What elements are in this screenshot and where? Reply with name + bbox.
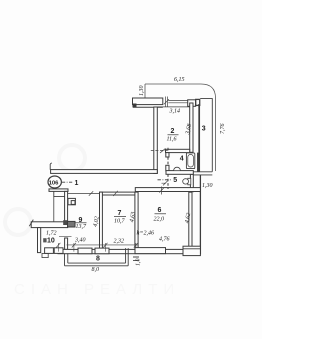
- svg-text:7,76: 7,76: [220, 124, 226, 135]
- bottom right corner block: [183, 246, 200, 255]
- room 10 label: [43, 238, 46, 242]
- svg-text:4,76: 4,76: [159, 235, 170, 242]
- bottom dim ticks: [56, 243, 138, 248]
- dim line 1.72: [59, 235, 72, 237]
- leader line to room 5 label: [158, 179, 172, 181]
- toilet room 5: [188, 178, 191, 185]
- svg-text:2: 2: [171, 128, 175, 135]
- svg-text:10,7: 10,7: [114, 219, 126, 225]
- hatched box near 13.7: [68, 221, 76, 227]
- svg-text:11,6: 11,6: [167, 136, 177, 142]
- svg-text:2,32: 2,32: [114, 239, 125, 245]
- svg-text:3,14: 3,14: [169, 108, 181, 115]
- svg-text:CIAН РЕАЛТИ: CIAН РЕАЛТИ: [14, 281, 180, 298]
- svg-text:1,72: 1,72: [46, 231, 57, 237]
- room 6 right wall: [189, 192, 192, 247]
- window blocks room9 to loggia8: [78, 248, 92, 254]
- svg-text:8: 8: [96, 256, 100, 263]
- svg-text:5: 5: [173, 177, 177, 184]
- svg-text:6,15: 6,15: [174, 77, 185, 83]
- wall between room4 and room5: [166, 171, 193, 175]
- room 2 right wall: [190, 103, 193, 152]
- wall between rooms 7 and 6: [135, 192, 138, 249]
- svg-text:106: 106: [49, 180, 60, 186]
- svg-text:13,7: 13,7: [76, 224, 88, 230]
- corridor top wall: [51, 170, 158, 174]
- dark junction box at stair wall base: [63, 220, 67, 225]
- tick on room9 top: [89, 191, 93, 196]
- svg-text:1,30: 1,30: [202, 183, 213, 189]
- top wall pier to loggia: [196, 99, 200, 105]
- bathtub room 4: [186, 153, 194, 169]
- bottom exterior wall: [58, 249, 183, 253]
- loggia 8 outline: [65, 248, 129, 266]
- svg-text:1,30: 1,30: [139, 86, 145, 97]
- building right wall below loggia: [199, 175, 201, 254]
- room 2 left wall: [154, 107, 158, 173]
- room 2 bottom wall right part: [166, 149, 190, 152]
- room 4 left wall: [166, 153, 169, 157]
- svg-text:1: 1: [75, 180, 79, 187]
- stairs left thin line: [53, 197, 55, 225]
- underlines for area labels: [76, 135, 179, 223]
- tick on room7 top: [113, 191, 117, 196]
- dim line 6.15 top with arc corner and 7.76 right: [145, 84, 216, 171]
- svg-text:4: 4: [180, 156, 184, 163]
- room 5 right wall: [190, 174, 193, 191]
- vent square room 9: [68, 198, 75, 204]
- tick near room5/6 wall: [159, 187, 163, 195]
- loggia 3 outline: [198, 104, 200, 172]
- svg-text:10: 10: [47, 238, 55, 245]
- svg-text:3,40: 3,40: [74, 237, 86, 244]
- small step below wall near room10: [42, 253, 48, 257]
- svg-text:1,0: 1,0: [136, 259, 142, 267]
- room 9 top thin wall: [65, 193, 100, 195]
- dim connector 1.30 vertical: [144, 84, 146, 98]
- stairwell-room9 wall: [65, 191, 68, 224]
- window block room6 bottom: [135, 248, 166, 254]
- dashed hall partition: [167, 148, 169, 189]
- apartment number circle 100: [48, 176, 61, 188]
- entrance inset: [54, 191, 65, 196]
- svg-text:8,0: 8,0: [92, 267, 100, 273]
- corridor bottom wall: [49, 189, 68, 192]
- room5 bottom / room6 top wall: [135, 188, 200, 192]
- cut tick corridor wall left: [50, 163, 52, 170]
- svg-text:6: 6: [158, 207, 162, 214]
- room 2 window sill line: [157, 106, 189, 108]
- room 7 top wall: [100, 192, 136, 195]
- room 7 left wall: [100, 192, 103, 249]
- svg-text:h=2,46: h=2,46: [137, 230, 155, 237]
- wall block top: [188, 100, 196, 107]
- bottom wall under room10 window blocks: [45, 248, 54, 254]
- svg-text:22,0: 22,0: [154, 217, 165, 223]
- room 10 right wall: [65, 238, 68, 249]
- svg-text:3: 3: [202, 126, 206, 133]
- window of room 2 (3.14): [168, 100, 187, 102]
- dim line 3.40 / 2.32: [67, 244, 139, 246]
- room 10 left wall: [38, 228, 41, 253]
- sink room 4: [174, 167, 181, 170]
- tick 3.14 left: [164, 97, 169, 107]
- faint watermark rings: [59, 145, 85, 171]
- dash-dot door line room2: [151, 149, 169, 151]
- bathroom right wall: [197, 153, 199, 172]
- stairwell bottom wall: [31, 222, 67, 228]
- svg-text:7: 7: [118, 210, 122, 217]
- balcony wall top-left: [133, 98, 163, 105]
- loggia depth dim marks 1.0: [133, 257, 139, 261]
- cut mark left protrusion: [29, 220, 33, 227]
